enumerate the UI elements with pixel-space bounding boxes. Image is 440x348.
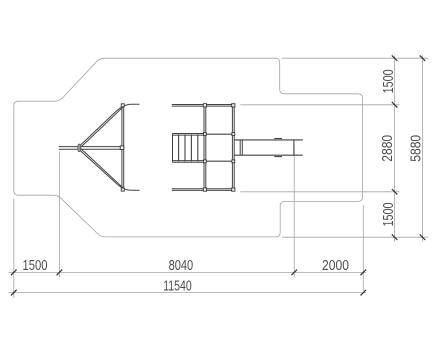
ladder rung 3: [190, 134, 192, 161]
tick at (294.2,272.4): [291, 270, 297, 276]
ladder rung 1: [178, 134, 180, 161]
A-frame center hub (ellipse node): [78, 144, 81, 152]
dimension line right inner x=394.6: [394, 56, 396, 242]
ladder left end cap: [172, 134, 174, 163]
A-frame top node: [121, 104, 124, 107]
extension line x=294.2 (8040/2000 divider, slide end): [293, 146, 295, 278]
tower right post (double line): [231, 107, 233, 188]
tick at (394.6,191.8): [392, 189, 398, 195]
dimension tick marks: [11, 55, 425, 295]
A-frame beam-post node: [120, 146, 123, 150]
platform node bottom-left: [204, 160, 207, 163]
platform top edge: [205, 133, 233, 135]
tick 1500 left at (13.8,272.4): [11, 270, 17, 276]
extension line left edge x=13.8: [13, 199, 15, 298]
platform node top-right: [232, 133, 235, 136]
tower left post (double line): [203, 107, 205, 188]
ladder rung 4: [197, 134, 199, 161]
tower top beam (double line): [172, 104, 235, 106]
platform node bottom-right: [232, 160, 235, 163]
svg-text:8040: 8040: [169, 258, 194, 274]
dimension line bottom second row y=292.6: [9, 292, 367, 294]
dimension line right outer x=422.5: [422, 56, 424, 242]
slide top rail: [234, 139, 302, 141]
tick at (363.3,292.6): [361, 290, 367, 296]
A-frame bottom node: [121, 188, 124, 191]
tick at (394.6,104.8): [392, 102, 398, 108]
slide clamp top: [274, 138, 282, 140]
extension line y=104.8 (equipment top to right dims): [240, 104, 399, 106]
tick at (394.6,58.2): [392, 55, 398, 61]
slide entrance bar (double line): [239, 140, 241, 155]
A-frame post (double line): [121, 107, 123, 188]
platform bottom edge: [205, 160, 233, 162]
tower node bottom-left: [203, 188, 206, 191]
platform node top-left: [204, 133, 207, 136]
A-frame upper diagonal rail (curves into horizontal stub): [79, 104, 139, 146]
safety zone boundary outline: [14, 58, 363, 237]
tower node top-left: [203, 104, 206, 107]
ladder bottom rail (double line): [172, 160, 204, 162]
slide bottom rail: [234, 154, 302, 156]
svg-text:2880: 2880: [380, 135, 396, 162]
svg-text:1500: 1500: [381, 69, 397, 93]
tick at (363.3,272.4): [361, 270, 367, 276]
svg-text:1500: 1500: [23, 258, 48, 274]
dimension line bottom first row y=272.4: [9, 271, 367, 273]
ladder top rail (double line): [172, 133, 204, 135]
tower node bottom-right: [232, 188, 235, 191]
tower node top-right: [232, 104, 235, 107]
tick at (59.4,272.4): [57, 270, 63, 276]
tick at (394.6,237.2): [392, 234, 398, 240]
tick at (13.8,292.6): [11, 290, 17, 296]
node squares (white fill, dark border): [120, 104, 124, 191]
slide clamp bottom: [274, 156, 282, 158]
tower bottom beam (double line): [172, 188, 235, 190]
A-frame lower diagonal rail (curves into horizontal stub): [79, 150, 139, 191]
extension line y=237.2 (bottom edge to right dims): [282, 236, 428, 238]
extension line y=58.2 (top edge to right dims): [282, 57, 428, 59]
ladder rung 2: [184, 134, 186, 161]
svg-text:11540: 11540: [163, 278, 192, 294]
A-frame horizontal beam (double line): [59, 146, 121, 148]
slide end wall: [293, 140, 295, 155]
extension line x=363.3 (right edge to bottom dims): [362, 205, 364, 291]
svg-text:2000: 2000: [322, 258, 349, 274]
extension line x=59.4 (1500/8040 divider): [58, 152, 60, 278]
svg-text:5880: 5880: [409, 135, 425, 162]
extension line y=191.8 (equipment bottom to right dims): [240, 191, 399, 193]
svg-text:1500: 1500: [381, 203, 397, 227]
tick at (422.5,237.2): [420, 234, 426, 240]
tick at (422.5,58.2): [420, 55, 426, 61]
